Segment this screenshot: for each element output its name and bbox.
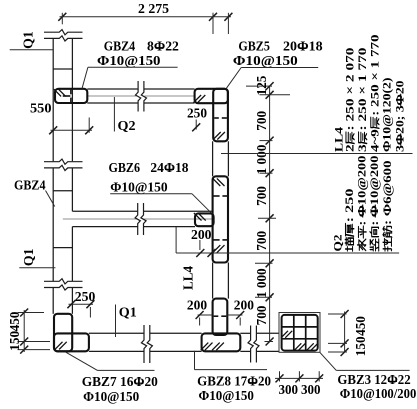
svg-text:8Φ22: 8Φ22 <box>147 39 179 54</box>
spec list Q2 : name <box>330 235 344 252</box>
hatch GBZ4 <box>54 89 61 96</box>
GBZ8 stirrup dash <box>214 315 219 317</box>
svg-text:250: 250 <box>187 106 207 121</box>
leader line for LL4 spec list <box>221 153 413 155</box>
GBZ3 inner grid vertical lines <box>293 315 295 351</box>
GBZ4 inner stirrup dashes <box>70 90 72 95</box>
svg-text:Q1: Q1 <box>20 31 35 49</box>
spec list LL4 : floors 4-9 size <box>367 35 381 153</box>
hatch GBZ8 left <box>201 343 209 351</box>
label Q1 top (rotated) with leader <box>20 31 35 49</box>
svg-text:GBZ3 12Φ22: GBZ3 12Φ22 <box>337 373 410 388</box>
spec list Q2 : tie bars <box>380 161 394 251</box>
svg-text:Q2: Q2 <box>118 119 136 134</box>
svg-text:Φ10@150: Φ10@150 <box>83 390 139 404</box>
hatch GBZ3 bottom-middle cell <box>294 343 301 350</box>
svg-text:Q1: Q1 <box>21 248 36 266</box>
GBZ3 inner grid horizontal lines <box>282 326 318 328</box>
dimension chain right side (125,700,1000,700,700,1000,700) <box>269 86 271 341</box>
dimension 150 450 right of GBZ3 <box>344 312 346 353</box>
svg-text:Φ10@150: Φ10@150 <box>199 389 254 404</box>
break symbol top wall <box>136 81 141 112</box>
svg-text:Φ10@150: Φ10@150 <box>97 54 161 69</box>
svg-text:550: 550 <box>30 102 52 117</box>
break symbol left wall lower <box>44 279 83 284</box>
svg-text:700: 700 <box>254 305 269 325</box>
svg-text:200: 200 <box>187 299 207 314</box>
dimension 150 450 left of GBZ7 <box>23 310 25 352</box>
column GBZ8 (tee at bottom wall) vertical bar <box>213 299 228 335</box>
svg-text:150: 150 <box>7 331 22 351</box>
hatch GBZ8 right <box>212 343 220 351</box>
svg-text:Φ10@100/200: Φ10@100/200 <box>340 387 417 402</box>
spec list LL4 : floor 2 size <box>343 48 357 153</box>
break symbol middle wall <box>135 203 140 235</box>
spec list Q2 : horizontal bars <box>354 156 368 251</box>
svg-text:300: 300 <box>301 383 321 398</box>
break symbol left wall middle <box>44 159 83 164</box>
svg-text:GBZ8 17Φ20: GBZ8 17Φ20 <box>197 374 271 389</box>
wall Q1 bottom horizontal : top line <box>89 332 144 334</box>
svg-text:: Φ6@600: : Φ6@600 <box>380 161 394 225</box>
column GBZ7 horizontal bar <box>54 333 89 351</box>
svg-text:GBZ5: GBZ5 <box>238 40 270 55</box>
hatch GBZ5 horizontal bar <box>194 95 202 103</box>
column GBZ6 (tee at middle wall) vertical bar <box>213 176 228 262</box>
svg-text:200: 200 <box>191 228 212 243</box>
svg-text:125: 125 <box>254 75 269 95</box>
column GBZ7 (corner, bottom-left) vertical bar <box>54 314 72 352</box>
wall middle horizontal : top line <box>72 210 137 212</box>
hatch GBZ7 <box>55 342 63 350</box>
label Q1 above bottom wall with leader <box>115 305 117 338</box>
svg-text:1 000: 1 000 <box>254 144 269 174</box>
joint mark GBZ4 upper boundary in left wall <box>53 68 72 70</box>
spec list Q2 : wall thickness <box>342 189 356 252</box>
svg-text:GBZ6: GBZ6 <box>109 161 141 176</box>
column GBZ5 (corner, top-right) horizontal bar <box>195 89 228 103</box>
GBZ3 stirrup square <box>282 315 318 351</box>
dimension 300 300 below GBZ3 <box>275 377 323 379</box>
joint mark mid GBZ4 upper boundary <box>53 190 72 192</box>
column GBZ3 (isolated square, bottom-right) outer outline <box>279 313 320 353</box>
hatch GBZ6 flange <box>194 213 202 221</box>
hatch GBZ6 bottom <box>213 245 221 253</box>
spec list LL4 : name <box>332 127 346 152</box>
svg-text:GBZ7 16Φ20: GBZ7 16Φ20 <box>82 375 158 390</box>
label Q1 middle-left (rotated) with leader <box>21 248 36 266</box>
spec list LL4 : main bars <box>392 81 406 153</box>
hatch GBZ6 top <box>213 178 221 186</box>
svg-text:24Φ18: 24Φ18 <box>150 161 188 176</box>
wall Q2 right vertical : right line <box>227 141 229 176</box>
wall LL4 top horizontal : top line <box>87 88 137 90</box>
svg-text:700: 700 <box>254 231 269 251</box>
wall Q1 bottom horizontal : bottom line <box>89 350 144 352</box>
spec list Q2 : vertical bars <box>367 156 381 251</box>
svg-text:20Φ18: 20Φ18 <box>283 40 323 55</box>
svg-text:150: 150 <box>353 336 368 356</box>
label LL4 at middle wall (rotated) <box>182 266 197 290</box>
label GBZ8 bottom with leader <box>194 351 196 370</box>
svg-text:2 275: 2 275 <box>138 2 169 17</box>
GBZ5 stirrup dash <box>214 117 219 119</box>
break symbol bottom wall left <box>141 325 146 363</box>
wall LL4 top horizontal : bottom line <box>87 102 137 104</box>
column GBZ4 (wall end, top-left) <box>55 89 87 103</box>
svg-text:700: 700 <box>254 111 269 131</box>
GBZ6 stirrup dashes <box>214 195 220 197</box>
hatch GBZ3 mid-left cell <box>281 331 288 338</box>
label Q2 below top wall with leader <box>113 97 115 132</box>
svg-text:GBZ4: GBZ4 <box>14 178 46 193</box>
hatch GBZ5 vertical bar bottom <box>213 132 221 140</box>
svg-text:1 000: 1 000 <box>254 268 269 298</box>
wall LL4 top horizontal : center line <box>63 95 71 97</box>
break symbol left wall top <box>44 30 83 35</box>
wall middle horizontal : bottom line <box>72 226 137 228</box>
wall Q1 left vertical : inner line <box>71 38 73 161</box>
spec list LL4 : floor 3 size <box>355 48 369 153</box>
svg-text:300: 300 <box>279 383 299 398</box>
svg-text:700: 700 <box>254 186 269 206</box>
svg-text:Q2: Q2 <box>330 235 344 252</box>
svg-text:: Φ10@200: : Φ10@200 <box>367 156 381 226</box>
svg-text:3Φ20; 3Φ20: 3Φ20; 3Φ20 <box>392 81 406 153</box>
wall Q1 left vertical : outer line <box>52 38 54 161</box>
label GBZ3 bottom-right with leader <box>320 352 337 370</box>
svg-text:LL4: LL4 <box>182 266 197 290</box>
column GBZ6 flange into middle wall <box>195 213 214 226</box>
joint mark mid GBZ4 lower boundary <box>53 247 72 249</box>
hatch GBZ3 bottom-right cell <box>307 343 314 350</box>
svg-text:GBZ4: GBZ4 <box>104 39 136 54</box>
wall middle horizontal : center line <box>63 218 138 220</box>
spec list LL4 : stirrups <box>380 78 394 153</box>
column GBZ8 horizontal bar <box>202 333 241 351</box>
dimension 2 275 top <box>60 16 232 18</box>
column GBZ5 vertical bar <box>213 89 228 142</box>
break symbol bottom wall right <box>248 326 253 363</box>
svg-text:450: 450 <box>7 311 22 331</box>
label GBZ7 bottom with leader <box>66 352 98 370</box>
wall Q2 right vertical : left line <box>212 141 214 176</box>
svg-text:450: 450 <box>353 316 368 336</box>
svg-text:Φ10@150: Φ10@150 <box>233 54 298 69</box>
svg-text:Q1: Q1 <box>119 306 137 321</box>
